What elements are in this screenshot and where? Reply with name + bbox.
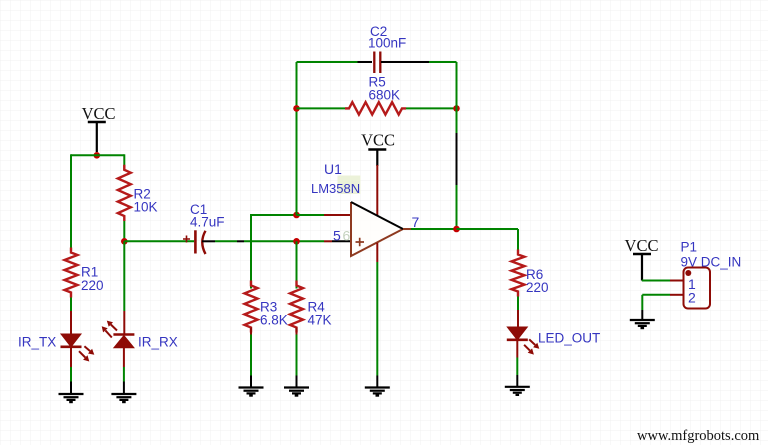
svg-text:47K: 47K [308, 313, 332, 328]
wire VCC to op-amp pin 8 [376, 165, 378, 215]
highlight LM358N [338, 176, 361, 195]
diode IR_TX [61, 334, 82, 347]
resistor R2 [118, 165, 131, 221]
wire output to R6 [457, 229, 519, 255]
wire R3 vertical from minus net [250, 214, 252, 289]
svg-text:100nF: 100nF [368, 36, 406, 51]
label U1 [324, 161, 342, 177]
pin number 2 label [688, 290, 696, 306]
op-amp U1 triangle [351, 202, 403, 256]
svg-text:IR_TX: IR_TX [18, 335, 56, 350]
label R1 value [81, 265, 104, 294]
diode IR_RX [113, 335, 134, 348]
wire junction to C1 [124, 240, 194, 242]
capacitor C2 [374, 52, 380, 74]
svg-text:7: 7 [412, 214, 420, 230]
svg-text:2: 2 [688, 290, 696, 306]
wire R2 to junction [123, 221, 125, 241]
label LM358N [311, 181, 360, 196]
pin 1 marker dot [685, 270, 691, 276]
label R2 value [134, 187, 158, 215]
wire R4 vertical from plus net [296, 241, 298, 288]
wire R6 to LED_OUT [517, 297, 519, 328]
wire plus net to pin 5 [324, 240, 351, 242]
power symbol VCC (input) [625, 236, 659, 281]
junction node output [453, 226, 460, 233]
wire R4 to ground [296, 328, 298, 388]
wire C2 top left [297, 61, 373, 63]
junction node plus net/R4 [293, 238, 300, 245]
label 9V DC_IN [681, 255, 742, 270]
svg-text:LM358N: LM358N [311, 181, 360, 196]
label C2 value [368, 24, 406, 51]
wire minus net to pin 6 [297, 214, 352, 216]
ground under IR_TX [59, 394, 84, 402]
label P1 [681, 240, 698, 255]
power symbol VCC (op-amp) [361, 131, 395, 167]
wire junction down to IR_RX [123, 241, 125, 334]
svg-text:220: 220 [526, 280, 549, 295]
wire right branch down to R2 [123, 154, 125, 170]
svg-text:6: 6 [343, 228, 351, 244]
label IR_RX [138, 335, 178, 350]
ground under op-amp [365, 388, 390, 396]
watermark text [637, 428, 760, 444]
wire LED_OUT to ground [516, 340, 518, 387]
junction node at VCC split [94, 152, 101, 159]
ground under R3 [239, 388, 264, 396]
resistor R6 [512, 250, 525, 297]
label IR_TX [18, 335, 56, 350]
power symbol VCC (left) [82, 104, 116, 152]
svg-text:P1: P1 [681, 240, 698, 255]
ground under R4 [284, 388, 309, 396]
wire IR_RX to ground [123, 348, 125, 395]
label R5 value [369, 75, 401, 103]
wire R3 to ground [250, 328, 252, 388]
op-amp plus marker [356, 238, 365, 246]
svg-text:680K: 680K [369, 88, 401, 103]
pin number 6 (faint) [343, 228, 351, 244]
svg-text:VCC: VCC [82, 104, 116, 123]
pin number 5 [333, 228, 341, 244]
diode LED_OUT [507, 327, 528, 340]
wire R1 to IR_TX anode [70, 298, 72, 335]
arrows IR_TX emitting [79, 346, 94, 361]
ground under IR_RX [111, 394, 136, 402]
label R3 value [260, 300, 288, 328]
capacitor C1 polarized [183, 230, 206, 254]
svg-text:220: 220 [81, 278, 104, 293]
svg-text:U1: U1 [324, 161, 342, 177]
pin number 7 [412, 214, 420, 230]
arrows LED_OUT emitting [524, 339, 539, 354]
svg-text:VCC: VCC [361, 131, 395, 150]
wire left branch down to R1 [70, 154, 72, 252]
label LED_OUT [538, 331, 600, 346]
wire feedback right vertical [456, 62, 458, 229]
wire R5 left lead [297, 107, 350, 109]
wire feedback left vertical [296, 62, 298, 215]
junction node R5 right [453, 105, 460, 112]
label C1 value [190, 202, 225, 230]
wire minus net horizontal [251, 214, 297, 216]
svg-text:IR_RX: IR_RX [138, 335, 178, 350]
wire R5 right lead [406, 107, 457, 109]
junction node R5 left [293, 105, 300, 112]
svg-text:LED_OUT: LED_OUT [538, 331, 600, 346]
resistor R5 [345, 102, 406, 114]
resistor R1 [65, 248, 78, 298]
svg-text:VCC: VCC [625, 236, 659, 255]
wire IR_TX cathode to ground [70, 347, 72, 394]
wire C1 to plus input net [202, 240, 324, 242]
svg-text:6.8K: 6.8K [260, 313, 288, 328]
junction node R2/IR_RX/C1 [121, 238, 128, 245]
ground under LED_OUT [505, 387, 530, 395]
label R6 value [526, 267, 549, 295]
ground under P1 [630, 320, 655, 328]
wire P1 pin 2 to ground [642, 295, 683, 320]
wire VCC to P1 pin 1 [642, 280, 683, 282]
label R4 value [308, 300, 332, 328]
connector P1 body [684, 268, 711, 309]
wire C2 top right [381, 61, 457, 63]
svg-text:www.mfgrobots.com: www.mfgrobots.com [637, 428, 760, 444]
junction node feedback/minus input [293, 212, 300, 219]
resistor R4 [290, 281, 303, 333]
svg-text:4.7uF: 4.7uF [190, 215, 225, 230]
resistor R3 [245, 281, 258, 333]
arrows IR_RX receiving [102, 321, 117, 338]
svg-text:5: 5 [333, 228, 341, 244]
pin number 1 label [688, 276, 696, 292]
svg-text:10K: 10K [134, 200, 158, 215]
wire output pin 7 [403, 228, 457, 230]
wire VCC split horizontal [71, 154, 124, 156]
wire op-amp pin 4 to ground [376, 243, 378, 388]
